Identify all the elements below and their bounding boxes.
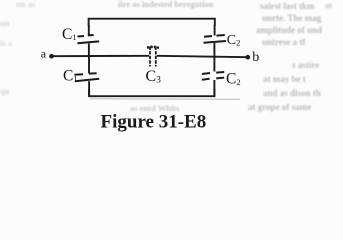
svg-text:is a: is a [0, 38, 13, 48]
wire: main horizontal a-to-b left part [51, 55, 149, 57]
capacitor C3 top plate dots [147, 45, 159, 48]
node b terminal dot [246, 55, 251, 60]
svg-text:Figure 31-E8: Figure 31-E8 [101, 112, 207, 133]
svg-text:at grope of same: at grope of same [248, 102, 311, 112]
wire: left vertical lower (main wire to C1b top plate) [88, 56, 90, 73]
wire: main horizontal a-to-b right part [157, 56, 248, 57]
svg-text:amplitude of und: amplitude of und [256, 25, 322, 35]
wire: bottom rail scan ghost [90, 98, 240, 101]
capacitor C1 (top) plates [77, 35, 99, 43]
wire: left vertical upper (rail to C1 top plate) [88, 25, 90, 36]
node a terminal dot [49, 54, 54, 59]
svg-text:un as: un as [16, 0, 36, 9]
svg-text:a: a [41, 47, 47, 61]
capacitor C2 (top) plates [204, 35, 227, 43]
faint bleed-through text top [118, 0, 332, 10]
wire: right vertical (C2b bottom to bottom rail) [213, 80, 215, 97]
faint bleed-through left [0, 0, 36, 96]
svg-text:b: b [252, 50, 259, 65]
svg-text:un: un [0, 18, 10, 28]
capacitor C3 plates (vertical bars in main wire) [150, 47, 156, 67]
svg-text:unrte. The mag: unrte. The mag [262, 13, 322, 23]
svg-text:sairst last tkm: sairst last tkm [260, 1, 315, 11]
wire: bottom rail [89, 89, 214, 96]
wire: right vertical (C2 bottom to main wire) [213, 43, 215, 58]
svg-text:qu: qu [0, 86, 10, 96]
wire: right vertical upper (rail to C2 top) [214, 25, 216, 36]
wire: right vertical lower (main wire to C2b top) [213, 56, 215, 72]
faint bleed-through text right margin [248, 1, 322, 112]
capacitor C1 (bottom) plates [74, 73, 99, 81]
svg-text:untrese a tf: untrese a tf [262, 37, 306, 47]
wire: left vertical (C1 bottom plate to main wire) [88, 44, 90, 59]
faint bleed above caption [130, 103, 180, 113]
svg-text:at: at [325, 0, 332, 10]
svg-text:s astire: s astire [292, 60, 319, 70]
capacitor C2 (bottom) plates [202, 72, 224, 80]
wire: top rail [89, 19, 215, 26]
svg-text:iire as indested berogation: iire as indested berogation [118, 0, 214, 9]
wire: left vertical (C1b bottom to bottom rail) [88, 81, 90, 96]
svg-text:and as dison th: and as dison th [263, 88, 321, 98]
svg-text:at may be t: at may be t [263, 74, 306, 84]
